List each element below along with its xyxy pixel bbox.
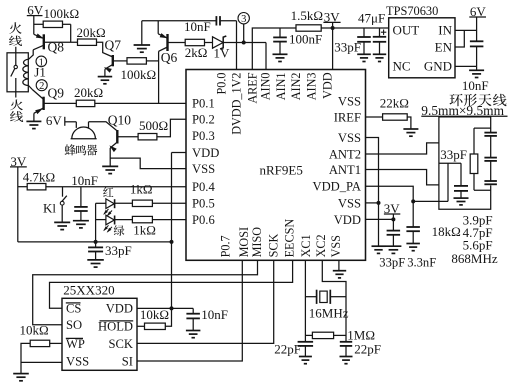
- wire 3V stem down: [17, 167, 19, 242]
- svg-text:AIN2: AIN2: [289, 73, 303, 101]
- wire Q10 base: [117, 136, 138, 138]
- svg-text:25XX320: 25XX320: [63, 283, 114, 298]
- transistor Q10 (NPN): [116, 130, 118, 144]
- svg-text:33pF: 33pF: [334, 39, 361, 54]
- resistor 10kΩ (HOLD): [137, 325, 145, 327]
- transistor Q6 (PNP): [157, 21, 159, 34]
- svg-text:XC2: XC2: [314, 234, 328, 257]
- svg-text:VSS: VSS: [338, 196, 361, 210]
- ground (TPS): [476, 66, 478, 70]
- transistor Q8 (PNP): [43, 34, 45, 49]
- svg-text:nRF9E5: nRF9E5: [260, 163, 303, 178]
- wire Q6 base: [168, 42, 186, 44]
- svg-text:10kΩ: 10kΩ: [20, 322, 49, 337]
- wire grounded top rail: [142, 20, 217, 22]
- svg-text:100nF: 100nF: [289, 32, 322, 47]
- capacitor 3.3nF: [412, 201, 414, 227]
- ground (VSS right): [378, 203, 380, 246]
- svg-text:AIN1: AIN1: [274, 73, 288, 101]
- regulator U2 TPS70630: [389, 18, 455, 78]
- wire XC2: [322, 260, 346, 342]
- ground (Q9 emitter): [26, 120, 41, 122]
- LED green (D2): [114, 225, 125, 236]
- wire EEPROM VDD node: [137, 307, 193, 309]
- ground (top rail): [141, 21, 143, 45]
- svg-text:GND: GND: [424, 59, 452, 74]
- svg-text:SI: SI: [122, 354, 133, 368]
- capacitor 4.7pF: [484, 157, 497, 159]
- wire TPS EN tie: [455, 30, 464, 47]
- wire 3V bottom rail: [18, 241, 172, 243]
- wire AREF riser and 3V rail: [252, 28, 296, 70]
- wire to relay: [15, 47, 17, 53]
- crystal 16MHz: [305, 296, 316, 298]
- svg-text:CS: CS: [66, 302, 81, 316]
- wire P0.4 rail: [46, 186, 186, 188]
- svg-text:EN: EN: [435, 39, 453, 54]
- wire VSS EEPROM: [21, 361, 62, 363]
- node ③ marker: [242, 41, 246, 45]
- ground (K1): [54, 221, 70, 223]
- svg-text:VSS: VSS: [338, 131, 361, 145]
- wire TPS GND: [455, 65, 477, 67]
- resistor 100kΩ (Q8 pullup): [34, 23, 43, 25]
- ground (Q10 emitter): [102, 165, 118, 167]
- svg-text:TPS70630: TPS70630: [386, 4, 438, 18]
- svg-text:P0.6: P0.6: [192, 213, 215, 227]
- ground (33pF 3V rail): [357, 53, 371, 55]
- capacitor 10nF (TPS input): [470, 40, 484, 42]
- capacitor 22pF (XC2): [340, 341, 352, 343]
- svg-text:MISO: MISO: [250, 227, 264, 258]
- svg-text:100kΩ: 100kΩ: [121, 67, 157, 82]
- svg-text:VSS: VSS: [329, 235, 343, 258]
- ground (3.3nF): [406, 243, 420, 245]
- svg-text:AIN0: AIN0: [258, 73, 272, 101]
- svg-text:Kl: Kl: [43, 200, 56, 215]
- svg-text:VDD: VDD: [334, 213, 361, 227]
- svg-text:1kΩ: 1kΩ: [133, 222, 156, 237]
- svg-text:1MΩ: 1MΩ: [347, 327, 375, 342]
- svg-text:VDD: VDD: [192, 146, 219, 160]
- svg-text:10kΩ: 10kΩ: [140, 307, 169, 322]
- capacitor 100nF (AREF): [279, 28, 281, 37]
- wire VSS3: [366, 202, 379, 204]
- capacitor 22pF (XC1): [298, 341, 314, 343]
- svg-text:10nF: 10nF: [184, 19, 211, 34]
- svg-text:IREF: IREF: [334, 110, 361, 124]
- wire buzzer to Q10 collector: [89, 122, 118, 131]
- wire VDD_PA to antenna: [413, 200, 448, 202]
- svg-text:P0.3: P0.3: [192, 129, 215, 143]
- svg-text:Q10: Q10: [108, 112, 131, 127]
- svg-text:47μF: 47μF: [358, 10, 385, 25]
- svg-text:22kΩ: 22kΩ: [380, 95, 409, 110]
- svg-text:XC1: XC1: [299, 234, 313, 257]
- svg-text:VSS: VSS: [192, 162, 215, 176]
- terminal mark ①: [36, 56, 47, 67]
- resistor 22kΩ (IREF): [366, 116, 383, 118]
- svg-text:VDD: VDD: [321, 72, 335, 99]
- transistor Q9 (PNP): [42, 97, 44, 110]
- capacitor 33pF (VDD right): [392, 219, 394, 230]
- live-wire label 火线 (top): [9, 22, 21, 34]
- svg-text:1: 1: [39, 57, 44, 68]
- wire 6V stem: [33, 16, 35, 35]
- svg-text:18kΩ: 18kΩ: [432, 224, 461, 239]
- svg-text:1kΩ: 1kΩ: [130, 182, 153, 197]
- svg-text:6V: 6V: [46, 113, 63, 128]
- wire VDD down to EEPROM: [172, 152, 187, 154]
- ground (22pF left): [299, 356, 312, 358]
- svg-text:10nF: 10nF: [71, 173, 98, 188]
- LED red (D1): [103, 187, 113, 197]
- buzzer label 蜂鸣器: [65, 144, 76, 155]
- ground (33pF left): [87, 259, 104, 261]
- svg-text:VSS: VSS: [338, 95, 361, 109]
- capacitor 10nF (EEPROM): [192, 308, 194, 313]
- svg-text:NC: NC: [393, 59, 411, 74]
- ground (22pF right): [340, 356, 353, 358]
- wire LED common: [95, 203, 97, 242]
- wire Q8 base to 20k: [44, 41, 78, 43]
- svg-text:P0.5: P0.5: [192, 197, 215, 211]
- resistor 20kΩ (Q9 base / P0.1): [76, 100, 95, 106]
- ground (antenna 33pF): [454, 197, 469, 199]
- svg-text:EECSN: EECSN: [282, 219, 296, 258]
- ground (47μF): [373, 53, 386, 55]
- IC U3 25XX320 body: [62, 298, 137, 370]
- resistor 10kΩ (WP): [50, 342, 62, 344]
- resistor 4.7kΩ: [18, 186, 27, 188]
- ground (chip VSS bottom): [338, 260, 340, 270]
- svg-text:500Ω: 500Ω: [139, 118, 168, 133]
- svg-text:SO: SO: [66, 318, 82, 332]
- wire / node P0.1 line: [95, 102, 186, 104]
- ground (22kΩ): [403, 128, 418, 130]
- svg-text:9.5mm×9.5mm: 9.5mm×9.5mm: [421, 103, 504, 118]
- svg-text:Q6: Q6: [161, 50, 178, 65]
- wire EECSN to CS: [50, 260, 293, 308]
- svg-text:AIN3: AIN3: [304, 73, 318, 101]
- wire 3V rail to TPS OUT: [321, 27, 389, 29]
- capacitor 33pF (3V rail): [363, 28, 365, 37]
- svg-text:22pF: 22pF: [354, 342, 381, 357]
- svg-text:P0.0: P0.0: [215, 73, 229, 95]
- ground (33pF VDD): [385, 245, 401, 247]
- svg-text:2: 2: [39, 81, 44, 92]
- IC U1 nRF9E5 body: [186, 70, 366, 261]
- svg-text:VSS: VSS: [66, 354, 89, 368]
- wire TPS IN: [455, 29, 477, 31]
- svg-text:100kΩ: 100kΩ: [44, 6, 80, 21]
- resistor 1kΩ (red LED): [115, 202, 133, 204]
- resistor 2kΩ: [185, 39, 204, 45]
- svg-text:868MHz: 868MHz: [451, 251, 497, 266]
- svg-text:2kΩ: 2kΩ: [185, 45, 208, 60]
- wire DVDD_1V2 stub: [236, 21, 238, 70]
- svg-text:3: 3: [241, 14, 246, 25]
- terminal mark ②: [36, 80, 47, 91]
- relay coil J1: [29, 50, 34, 60]
- wire zener to node 3: [223, 42, 266, 44]
- resistor 20kΩ (Q8-Q7): [78, 39, 97, 45]
- resistor 500Ω: [138, 134, 157, 140]
- svg-text:P0.1: P0.1: [192, 97, 215, 111]
- zener diode 1V: [213, 37, 224, 48]
- svg-text:22pF: 22pF: [274, 342, 301, 357]
- svg-text:P0.7: P0.7: [218, 235, 232, 257]
- svg-text:SCK: SCK: [109, 337, 134, 351]
- wire 100k to Q6 collector node: [146, 60, 158, 62]
- capacitor 47μF electrolytic: [379, 28, 381, 37]
- svg-text:P0.2: P0.2: [192, 113, 215, 127]
- ground (100nF): [273, 53, 288, 55]
- svg-text:VDD_PA: VDD_PA: [312, 180, 361, 194]
- svg-text:20kΩ: 20kΩ: [77, 25, 106, 40]
- capacitor 3.9pF: [484, 132, 497, 134]
- wire VDD_PA: [366, 186, 414, 201]
- ground (10nF P0.4): [73, 220, 89, 222]
- wire MOSI to SI: [137, 260, 242, 361]
- svg-text:1V: 1V: [214, 46, 231, 61]
- svg-text:IN: IN: [438, 22, 452, 37]
- wire SCK: [137, 260, 274, 343]
- svg-text:4.7kΩ: 4.7kΩ: [23, 169, 55, 184]
- wire Q7 base: [113, 60, 127, 62]
- svg-text:Q8: Q8: [48, 39, 65, 54]
- resistor 1kΩ (green LED): [115, 219, 133, 221]
- resistor 100kΩ (Q7 base): [127, 58, 146, 64]
- svg-text:OUT: OUT: [393, 22, 420, 37]
- capacitor 10nF (P0.4): [80, 187, 82, 207]
- buzzer: [65, 121, 77, 123]
- svg-text:Q9: Q9: [48, 85, 65, 100]
- ground (EEPROM): [13, 373, 29, 375]
- wire Q6 collector down to P0.1: [158, 51, 160, 103]
- wire relay to live-wire (bottom): [15, 92, 17, 98]
- capacitor 33pF (3V rail): [95, 242, 97, 248]
- svg-text:33pF: 33pF: [105, 243, 132, 258]
- svg-text:MOSI: MOSI: [237, 227, 251, 257]
- svg-text:1.5kΩ: 1.5kΩ: [291, 8, 323, 23]
- resistor 18kΩ (antenna): [474, 127, 491, 129]
- svg-text:VDD: VDD: [106, 302, 133, 316]
- wire 6V drop: [476, 17, 478, 41]
- wire MISO to SO: [33, 260, 258, 325]
- switch K1: [62, 187, 64, 197]
- svg-text:20kΩ: 20kΩ: [74, 85, 103, 100]
- svg-text:3.3nF: 3.3nF: [407, 255, 436, 269]
- svg-text:33pF: 33pF: [379, 255, 405, 269]
- wire VDD right: [366, 218, 394, 220]
- wire VSS2 down: [366, 138, 379, 203]
- svg-text:Q7: Q7: [105, 37, 122, 52]
- svg-text:P0.4: P0.4: [192, 180, 215, 194]
- wire VDD top stub: [332, 28, 334, 70]
- svg-text:16MHz: 16MHz: [309, 305, 349, 320]
- svg-text:ANT2: ANT2: [329, 147, 361, 161]
- svg-text:10nF: 10nF: [462, 78, 489, 93]
- wire Q9 base to 20k: [44, 102, 77, 104]
- wire XC1: [304, 260, 306, 342]
- resistor 1MΩ: [312, 332, 333, 338]
- relay contact box J1: [7, 53, 28, 92]
- wire 500Ω to P0.2: [157, 119, 186, 136]
- loop antenna body: [439, 117, 491, 209]
- ground (Q7 emitter): [98, 76, 113, 78]
- svg-text:DVDD_1V2: DVDD_1V2: [230, 73, 244, 135]
- capacitor 5.6pF: [484, 180, 497, 182]
- svg-text:HOLD: HOLD: [98, 320, 133, 334]
- svg-text:SCK: SCK: [266, 233, 280, 257]
- wire ANT2: [366, 143, 439, 154]
- live-wire label 火线 (bottom): [10, 99, 23, 110]
- wire VSS to ground: [110, 158, 186, 169]
- wire AIN0 stub: [265, 43, 267, 70]
- resistor 1.5kΩ: [296, 25, 321, 31]
- wire 20k to Q7 collector: [97, 42, 113, 57]
- transistor Q7 (NPN): [112, 55, 114, 66]
- svg-text:33pF: 33pF: [440, 147, 467, 162]
- ground (10nF EEPROM): [186, 330, 201, 332]
- svg-text:10nF: 10nF: [201, 307, 228, 322]
- antenna label 环形天线: [449, 94, 462, 106]
- svg-text:ANT1: ANT1: [329, 163, 361, 177]
- wire ANT1: [366, 170, 439, 185]
